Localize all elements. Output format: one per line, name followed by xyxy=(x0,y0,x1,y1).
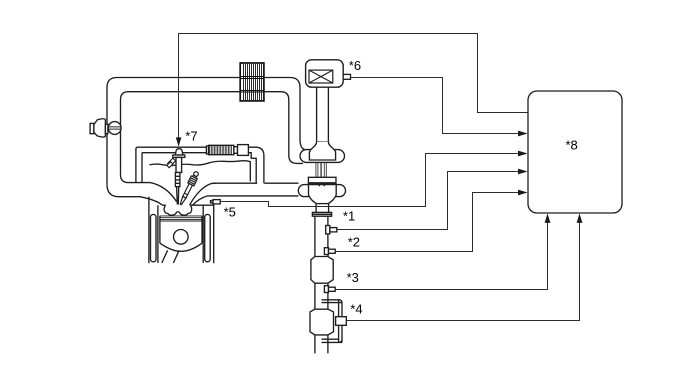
exhaust flange lower xyxy=(312,212,331,216)
exhaust manifold top edge xyxy=(213,182,299,184)
wire *5 to ECM xyxy=(220,154,518,207)
arrowhead *1 wire xyxy=(518,169,528,175)
studs xyxy=(316,163,326,178)
label *2 xyxy=(348,234,360,249)
runner neck right vertical xyxy=(141,153,143,183)
exhaust pipe mid section xyxy=(315,283,328,309)
intake duct inner wall bottom run into intake port xyxy=(121,175,177,202)
inlet duct bolt xyxy=(108,122,121,135)
arrowhead *5 wire xyxy=(518,151,528,157)
arrowhead *2 wire xyxy=(518,190,528,196)
label *4 xyxy=(350,302,362,317)
sampling tube lower for *4 xyxy=(322,325,343,342)
wire *2 to ECM xyxy=(335,193,518,252)
svg-text:*3: *3 xyxy=(347,270,359,285)
arrowhead at injector xyxy=(176,137,182,146)
injector *7 xyxy=(167,149,185,205)
wire *6 to ECM xyxy=(351,78,519,134)
catalytic converter front xyxy=(311,257,333,284)
engine block xyxy=(149,197,214,264)
air inlet duct xyxy=(90,119,108,137)
exhaust roll joint lower xyxy=(298,185,345,205)
catalytic converter rear xyxy=(310,309,334,335)
arrowhead *3 wire xyxy=(545,213,551,223)
piston xyxy=(160,216,202,251)
intake duct inner wall xyxy=(121,92,304,175)
sensor *4 xyxy=(336,317,347,326)
label *1 xyxy=(343,208,355,223)
throttle body roll joint upper xyxy=(300,142,345,163)
arrowhead *6 wire xyxy=(518,131,528,137)
VSV valve *6 xyxy=(306,60,351,87)
svg-text:*1: *1 xyxy=(343,208,355,223)
sensor *5 xyxy=(211,200,221,204)
ECM box *8 xyxy=(528,91,622,213)
label *6 xyxy=(349,58,361,73)
connecting rod xyxy=(162,250,179,263)
sensor *2 xyxy=(324,248,335,255)
label *5 xyxy=(224,205,236,220)
exhaust port lower lip xyxy=(192,196,206,205)
wire *3 to ECM xyxy=(335,223,547,290)
svg-text:*5: *5 xyxy=(224,205,236,220)
wire ECM to injector xyxy=(179,34,529,138)
standpipe from *6 xyxy=(317,87,329,142)
flange upper xyxy=(308,177,336,184)
svg-text:*8: *8 xyxy=(566,138,578,153)
wire *1 to ECM xyxy=(337,172,518,230)
exhaust port upper lip xyxy=(190,183,217,205)
label *7 xyxy=(185,128,197,143)
intake duct outer wall xyxy=(107,78,306,185)
label *8 xyxy=(566,138,578,153)
svg-text:*6: *6 xyxy=(349,58,361,73)
svg-text:*2: *2 xyxy=(348,234,360,249)
pipe between joint and flange xyxy=(316,204,329,213)
tail pipe xyxy=(315,335,328,354)
runner neck left vertical xyxy=(136,147,138,182)
exhaust pipe upper section xyxy=(315,216,328,256)
svg-text:*7: *7 xyxy=(185,128,197,143)
intake duct outer wall bottom run into engine xyxy=(107,184,162,205)
engine cylinder head wavy outline xyxy=(150,161,251,182)
wrist pin xyxy=(174,230,189,245)
ribbed air hose xyxy=(206,145,234,154)
label *3 xyxy=(347,270,359,285)
spark plug xyxy=(178,170,200,206)
svg-text:*4: *4 xyxy=(350,302,362,317)
combustion chamber dome xyxy=(164,205,192,215)
intake runner band top edge xyxy=(138,147,264,183)
sensor *1 xyxy=(326,226,337,234)
hose connector xyxy=(234,145,249,156)
arrowhead *4 wire xyxy=(577,213,583,223)
wire *4 to ECM xyxy=(346,223,579,321)
sensor *3 xyxy=(324,286,335,293)
air cleaner element xyxy=(240,63,264,101)
intake runner band bottom edge xyxy=(142,153,256,184)
exhaust manifold bottom edge xyxy=(207,195,299,197)
sampling tube upper for *4 xyxy=(322,300,343,317)
